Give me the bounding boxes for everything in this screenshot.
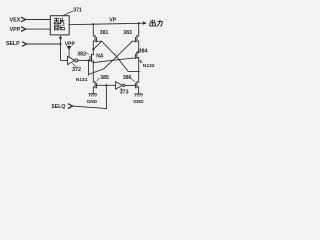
node VP-383 junction (138, 22, 140, 24)
svg-text:GND: GND (87, 99, 98, 104)
wire left column NA to 382 and down to 385 (92, 50, 94, 83)
wire SELP (27, 43, 61, 45)
svg-text:NA: NA (96, 54, 104, 60)
wire 381 source to NA node (92, 41, 94, 50)
inverter U373 (116, 82, 123, 90)
wire VP down to 381 (92, 24, 94, 36)
transistor 385 (93, 82, 96, 88)
label 386 leader (132, 79, 135, 82)
selection circuit box 371 (50, 16, 69, 35)
label 382 leader (86, 53, 89, 54)
wire VP rail (69, 23, 144, 25)
label 372 leader (73, 64, 76, 67)
svg-text:GND: GND (133, 99, 144, 104)
wire SELP riser into box with up arrow (60, 38, 62, 44)
node NA junction (92, 48, 94, 50)
VPP supply down-arrow (67, 46, 72, 50)
label 373 leader (121, 89, 123, 90)
svg-text:384: 384 (139, 48, 148, 54)
transistor 383 (133, 36, 139, 42)
wire cross D1: 381 gate to N132 (102, 41, 139, 72)
wire VP down to 383 (138, 23, 140, 36)
inverter U372 (68, 56, 75, 64)
node N132-D1 junction (138, 71, 140, 73)
node N131 junction (87, 59, 89, 61)
svg-text:N132: N132 (143, 63, 155, 69)
node H-column junction (92, 62, 94, 64)
wire 385 gate to inverter 373 input (97, 84, 116, 86)
svg-text:383: 383 (123, 30, 132, 36)
wire VPP to box (26, 28, 51, 30)
svg-text:371: 371 (73, 8, 82, 14)
transistor 384 (134, 52, 139, 58)
wire N131 drop (88, 60, 90, 75)
transistor 381 (93, 36, 101, 42)
svg-text:SELP: SELP (6, 41, 20, 47)
ground under 386 (135, 87, 143, 96)
label 385 leader (97, 78, 99, 81)
transistor 386 (135, 82, 138, 88)
svg-text:386: 386 (123, 75, 132, 81)
svg-text:382: 382 (77, 52, 86, 58)
node SELP junction (59, 43, 61, 45)
svg-text:381: 381 (100, 30, 109, 36)
wire VEX to box (26, 19, 51, 21)
box text 回路 (pseudo-glyphs) (54, 25, 64, 30)
svg-text:385: 385 (100, 75, 109, 81)
wire 383 source to 384 drain (138, 41, 140, 53)
wire SELQ (73, 106, 107, 108)
wire inverter372 out to gate of 382 (78, 59, 90, 61)
output arrowhead (143, 21, 147, 24)
svg-text:SELQ: SELQ (51, 104, 65, 110)
wire NA to 381 gate diagonal (93, 41, 101, 49)
label 371 leader (63, 11, 73, 15)
node VP-381 junction (92, 23, 94, 25)
wire SELP down to inverter 372 input (61, 44, 68, 60)
svg-text:VEX: VEX (10, 17, 21, 23)
wire inverter 373 out to 386 gate (125, 84, 135, 86)
svg-text:372: 372 (72, 67, 81, 73)
wire N132 column 384 source to 386 drain (138, 58, 140, 83)
node SELQ junction (105, 84, 107, 86)
wire NA to 384 gate (93, 58, 133, 63)
svg-text:N131: N131 (76, 77, 88, 83)
svg-text:VP: VP (109, 18, 116, 24)
transistor 382 (90, 54, 93, 61)
svg-text:VPP: VPP (10, 27, 21, 33)
label 出力 (pseudo-glyphs) (150, 20, 163, 26)
ground under 385 (89, 87, 97, 96)
svg-text:373: 373 (120, 90, 129, 96)
box text 選択 (pseudo-glyphs) (54, 18, 64, 24)
wire cross D2: 383 gate to N131 (89, 41, 133, 74)
wire SELQ riser (105, 85, 107, 108)
